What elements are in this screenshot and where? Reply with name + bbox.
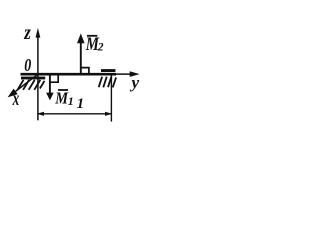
right support hatching — [99, 77, 116, 88]
moment M2 arrow — [80, 43, 82, 74]
dimension left arrowhead — [37, 112, 44, 116]
svg-text:1: 1 — [68, 94, 74, 108]
x-axis arrowhead — [8, 89, 18, 98]
svg-text:y: y — [129, 73, 139, 92]
z-axis line — [37, 36, 39, 120]
dimension right arrowhead — [105, 112, 112, 116]
right extension line — [110, 75, 112, 121]
M1 right-angle mark — [50, 75, 58, 82]
svg-text:x: x — [12, 88, 19, 110]
svg-text:z: z — [23, 22, 31, 44]
svg-text:0: 0 — [24, 55, 31, 75]
svg-text:1: 1 — [77, 96, 85, 112]
right support bar — [101, 69, 115, 72]
moment M1 arrow — [49, 75, 51, 93]
y-axis line — [114, 73, 131, 75]
z-axis arrowhead — [36, 28, 41, 38]
dimension line — [38, 113, 112, 115]
left support bar — [21, 77, 45, 80]
svg-text:2: 2 — [97, 41, 104, 53]
beam along y-axis — [21, 73, 117, 76]
left support hatching — [18, 80, 45, 90]
y-axis arrowhead — [130, 71, 140, 77]
x-axis line — [16, 74, 39, 91]
M2 right-angle mark — [81, 68, 89, 74]
